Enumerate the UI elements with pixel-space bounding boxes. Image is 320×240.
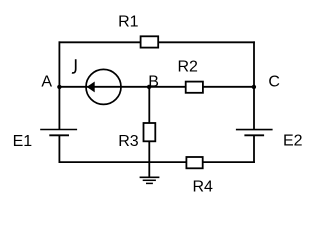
svg-text:B: B <box>148 73 159 90</box>
svg-text:R3: R3 <box>118 133 139 150</box>
current source J (circle) <box>86 69 121 104</box>
label E2 <box>283 133 303 150</box>
svg-text:R2: R2 <box>178 58 199 75</box>
battery E1 positive plate <box>40 129 77 131</box>
label R1 <box>118 13 139 30</box>
svg-text:C: C <box>268 73 280 90</box>
wire left rail lower (E1 to bottom wire) <box>58 135 60 163</box>
battery E2 negative plate <box>244 134 264 136</box>
label J <box>72 59 76 73</box>
wire bottom (from E1 through ground junction and R4 to E2) <box>59 161 255 163</box>
svg-text:A: A <box>41 73 52 90</box>
battery E1 negative plate <box>49 134 69 136</box>
svg-text:E2: E2 <box>283 133 303 150</box>
svg-text:E1: E1 <box>13 133 33 150</box>
resistor R3 <box>144 123 156 141</box>
label A <box>41 73 52 90</box>
resistor R2 <box>186 82 203 93</box>
wire right rail upper (top wire down through node C) <box>253 41 255 129</box>
wire middle (node A through J and R2 to node C) <box>59 86 254 88</box>
label C <box>268 73 280 90</box>
svg-text:R4: R4 <box>193 179 214 196</box>
current source J arrowhead (pointing left) <box>88 82 95 91</box>
node A junction dot <box>57 85 61 89</box>
wire middle column (node B down through R3 to ground) <box>148 87 150 178</box>
label E1 <box>13 133 33 150</box>
label R3 <box>118 133 139 150</box>
resistor R4 <box>186 157 202 168</box>
resistor R1 <box>141 36 159 47</box>
label B <box>148 73 159 90</box>
node B junction dot <box>147 85 151 89</box>
label R4 <box>193 179 214 196</box>
label R2 <box>178 58 199 75</box>
wire left rail upper (node A up to top wire) <box>58 41 60 129</box>
svg-text:R1: R1 <box>118 13 139 30</box>
wire right rail lower (E2 to bottom wire) <box>253 135 255 163</box>
battery E2 positive plate <box>236 129 273 131</box>
ground symbol <box>140 177 160 183</box>
wire top (R1 branch from left rail to right rail) <box>59 41 255 43</box>
node C junction dot <box>252 85 256 89</box>
